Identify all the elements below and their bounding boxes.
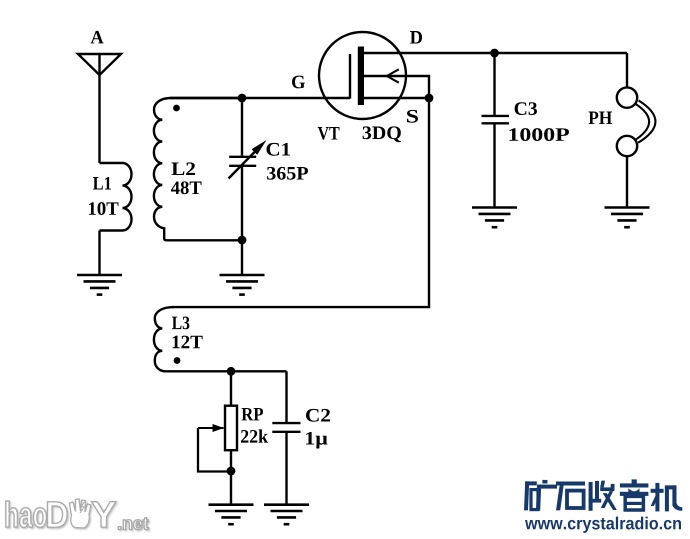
label G <box>292 76 305 89</box>
label A (antenna) <box>91 31 104 44</box>
capacitor C2 <box>272 371 300 504</box>
ground (below PH) <box>605 208 650 228</box>
wire L1 to ground <box>98 231 100 276</box>
node junction L2/C1 bottom <box>238 236 247 245</box>
hanzi yin <box>620 479 649 510</box>
label L1 <box>93 177 111 190</box>
node junction RP wiper <box>227 467 236 476</box>
label 48T <box>171 181 202 194</box>
label C2 <box>306 409 330 422</box>
wire L3 to RP <box>230 371 232 405</box>
label L2 <box>172 162 196 175</box>
wire PH to ground <box>626 156 628 207</box>
label 1u <box>306 432 328 449</box>
hanzi kuang <box>524 480 557 511</box>
wire RP to ground <box>230 450 232 505</box>
antenna A <box>78 54 121 75</box>
label 12T <box>173 336 203 349</box>
inductor L1 <box>100 163 132 231</box>
ground (below RP) <box>209 505 254 525</box>
label PH <box>589 112 613 124</box>
wire S net (source down and to L3) <box>172 98 429 307</box>
label 1000P <box>509 128 569 141</box>
wire G net (L2 top to gate) <box>170 97 350 99</box>
ground (below C1) <box>220 275 265 295</box>
node junction D/C3 <box>490 49 499 58</box>
label C3 <box>515 102 537 115</box>
watermark haoDIY.net (bottom left) <box>6 499 149 530</box>
wire C1 to ground <box>241 240 243 275</box>
hanzi ji <box>651 483 683 512</box>
capacitor C3 <box>482 53 510 208</box>
transistor VT (3DQ MOSFET) <box>319 32 429 119</box>
label S <box>407 110 418 123</box>
hand glyph of watermark <box>70 499 92 528</box>
wire D net (drain to C3/PH) <box>406 52 627 54</box>
wire antenna lead <box>98 54 100 163</box>
inductor L3 <box>154 307 287 371</box>
ground (below C3) <box>472 208 517 228</box>
label L3 <box>172 317 189 330</box>
capacitor C1 (variable) <box>229 98 267 240</box>
watermark crystalradio (bottom right) <box>524 479 682 533</box>
label RP <box>242 408 264 420</box>
polarity dot L3 <box>174 357 181 364</box>
url www.crystalradio.cn <box>525 517 681 533</box>
wire drain to PH <box>626 53 628 88</box>
node junction L3/RP <box>227 367 236 376</box>
ground (below C2) <box>264 505 309 525</box>
label C1 <box>267 143 291 156</box>
inductor L2 <box>154 98 242 240</box>
label 22k <box>241 429 268 442</box>
hanzi shi <box>556 482 585 511</box>
label 365P <box>267 167 308 180</box>
polarity dot L2 <box>173 105 180 112</box>
label VT <box>318 127 340 140</box>
label 10T <box>89 202 119 215</box>
ground (below L1) <box>77 275 122 295</box>
label 3DQ <box>363 126 401 142</box>
potentiometer RP <box>198 406 237 472</box>
earphone PH <box>617 87 656 156</box>
node junction L2/C1 top <box>238 94 247 103</box>
hanzi shou <box>589 481 617 511</box>
label D <box>410 31 422 43</box>
node junction S <box>425 94 434 103</box>
